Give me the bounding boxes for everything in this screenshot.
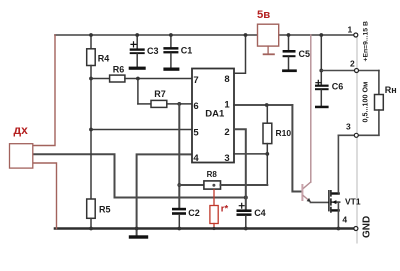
wire drain up to node3 (337, 135, 339, 193)
wire pin8 to supply rail (234, 35, 246, 73)
svg-text:6: 6 (193, 101, 198, 112)
svg-text:1: 1 (348, 25, 353, 35)
wire pin6 node down to C2 (178, 104, 180, 208)
svg-text:5: 5 (193, 128, 199, 139)
svg-text:R8: R8 (207, 170, 218, 179)
terminal node 2 (355, 69, 359, 73)
svg-text:3: 3 (346, 122, 351, 132)
svg-text:дх: дх (14, 123, 29, 137)
svg-text:8: 8 (224, 74, 229, 85)
svg-text:3: 3 (224, 153, 229, 164)
wire pin4 to ground (137, 154, 192, 235)
resistor R5 (90, 130, 92, 200)
svg-text:C4: C4 (254, 208, 266, 218)
svg-text:R7: R7 (154, 89, 166, 99)
wire pin3 to R10 bottom (234, 153, 267, 155)
svg-text:7: 7 (193, 75, 198, 86)
wire pin2 down to C4 (234, 129, 246, 209)
svg-text:R4: R4 (98, 54, 110, 64)
svg-text:DA1: DA1 (205, 109, 225, 120)
node A junction dot sensor signal to C4/pin2 (244, 196, 248, 200)
terminal node 1 (354, 33, 358, 37)
ground symbol (129, 235, 148, 238)
svg-text:1: 1 (224, 100, 230, 111)
svg-text:4: 4 (193, 153, 199, 164)
transistor VT1 MOSFET gate bar (328, 191, 330, 211)
terminal node 4 (354, 227, 358, 231)
resistor R8 (179, 184, 204, 186)
capacitor C5 (288, 35, 290, 50)
wire sensor middle signal lead (33, 154, 246, 197)
wire node3 to drain (338, 134, 379, 136)
svg-text:C1: C1 (181, 46, 193, 56)
resistor R4 (90, 35, 92, 49)
voltage regulator 5v box (red) (258, 24, 279, 46)
svg-text:2: 2 (350, 59, 355, 69)
wire node2 to Rn (321, 70, 379, 72)
svg-text:VT1: VT1 (345, 197, 361, 207)
transistor Q2 (driver, pink) collector wire (310, 35, 312, 182)
VT1 source tap (332, 209, 340, 211)
resistor r* (red trimmer) (213, 190, 215, 206)
resistor R7 (137, 79, 139, 104)
capacitor C6 (320, 35, 322, 85)
wire sensor lower lead (brown) (33, 163, 57, 229)
svg-text:R10: R10 (276, 128, 292, 138)
sensor box (red) (10, 144, 33, 168)
VT1 drain tap (332, 192, 340, 194)
terminal node 3 (354, 133, 358, 137)
svg-text:4: 4 (342, 214, 347, 224)
wire sensor upper lead (brown) (33, 35, 55, 146)
resistor Rn (378, 71, 380, 95)
wire top supply rail right segment (279, 34, 354, 36)
svg-text:C2: C2 (188, 208, 200, 218)
svg-text:R6: R6 (113, 65, 125, 75)
wire pin1 to transistor base (234, 104, 292, 106)
svg-text:C6: C6 (332, 82, 344, 92)
resistor R10 (234, 104, 293, 106)
capacitor C2 (172, 208, 186, 211)
svg-text:2: 2 (224, 127, 229, 138)
svg-text:R5: R5 (99, 205, 111, 215)
VT1 channel dashes (330, 191, 332, 212)
wire emitter to gate (310, 201, 328, 203)
svg-text:GND: GND (362, 216, 373, 238)
transistor Q2 base bar (301, 184, 303, 201)
wire source down to ground rail (337, 202, 339, 228)
svg-text:5в: 5в (257, 9, 270, 21)
svg-text:0,5...100 Ом: 0,5...100 Ом (361, 82, 370, 123)
transistor Q2 emitter with arrow (303, 196, 310, 202)
VT1 body tap with arrow (332, 201, 340, 203)
svg-text:C5: C5 (299, 49, 311, 59)
op-amp U1 / IC DA1 box (192, 69, 234, 163)
capacitor C3 (136, 35, 138, 48)
wire bottom ground rail (55, 227, 354, 230)
resistor R6 (91, 78, 110, 80)
regulator ground tab (267, 46, 269, 53)
wire pin5 to R4/R5 node (91, 129, 192, 131)
capacitor C1 (170, 35, 172, 47)
svg-text:+Eп=9...15 В: +Eп=9...15 В (363, 21, 370, 61)
svg-text:C3: C3 (147, 46, 159, 56)
wire top supply rail left segment (55, 34, 258, 36)
capacitor C4 (237, 209, 252, 212)
svg-text:r*: r* (221, 204, 229, 215)
connector line (light) (356, 36, 358, 243)
svg-text:Rн: Rн (385, 85, 397, 95)
